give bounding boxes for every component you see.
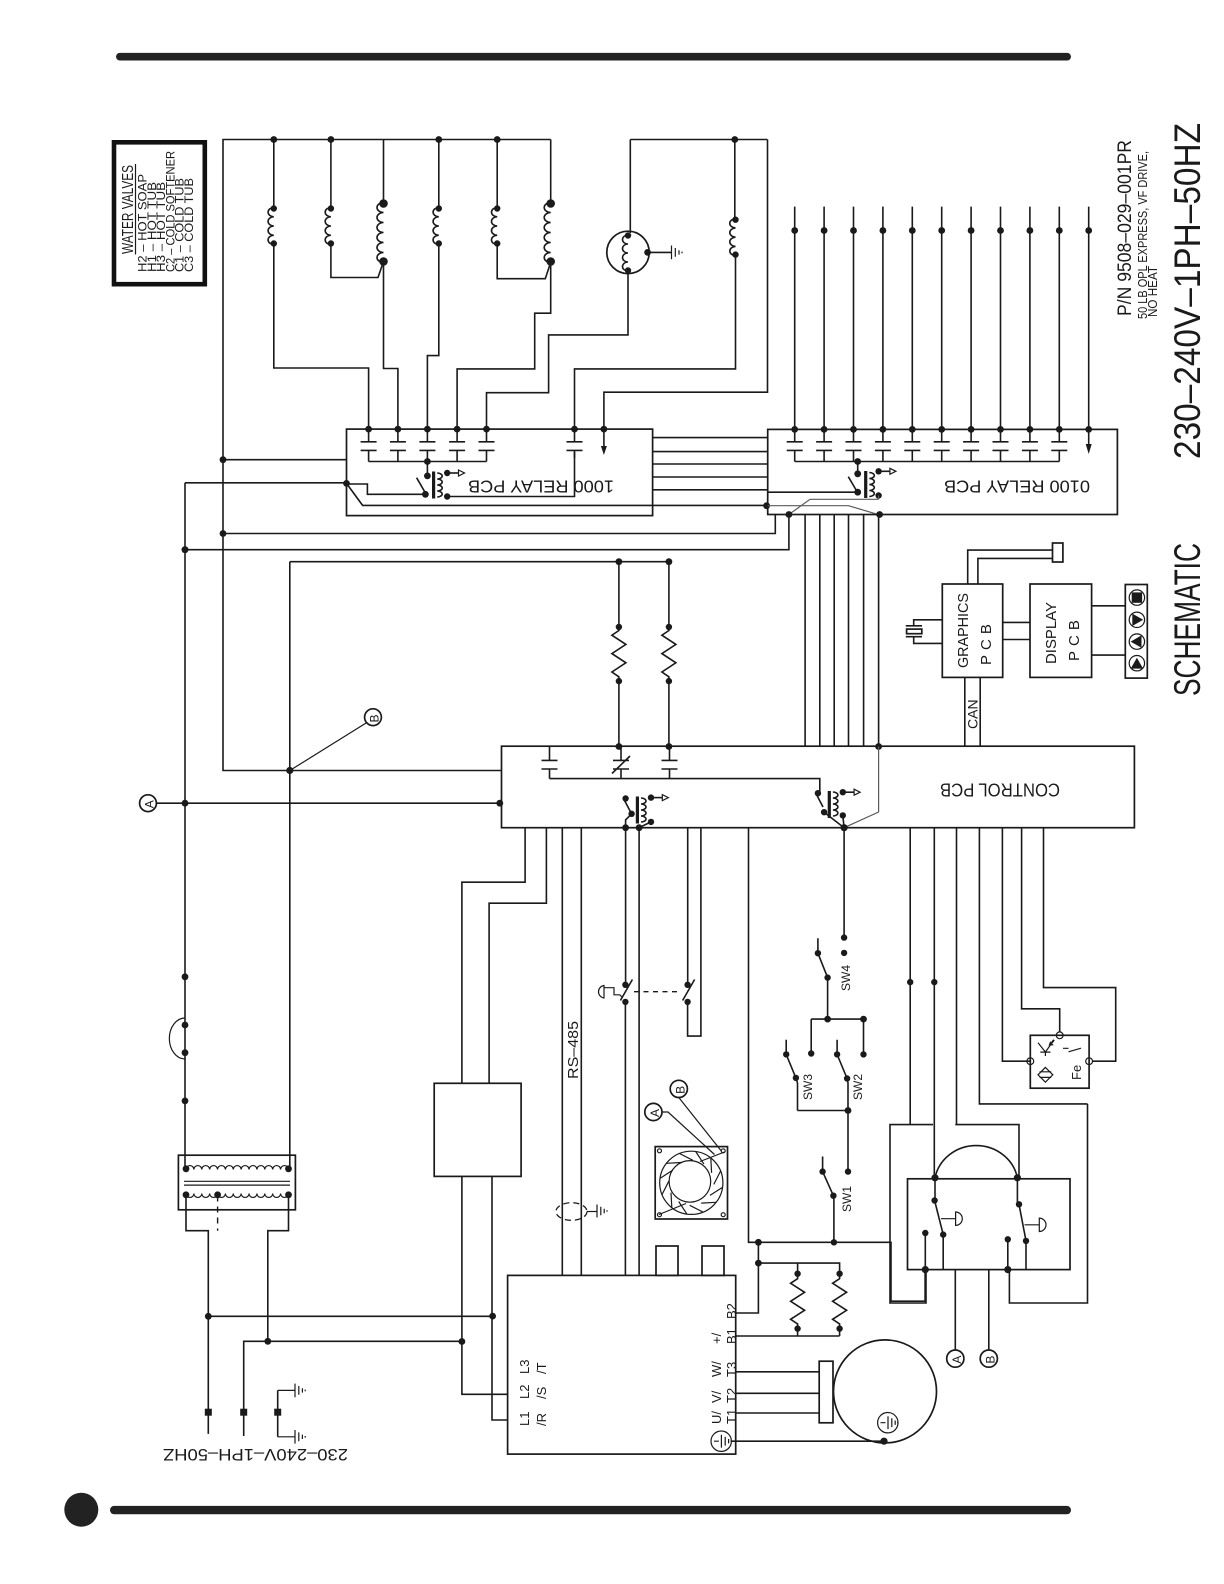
node dot supply L tap <box>205 1313 212 1320</box>
wire ferrite to ground <box>587 1211 597 1213</box>
crystal Y1 <box>906 620 943 644</box>
relay contact K1-1 <box>361 429 377 461</box>
svg-text:PCB: PCB <box>978 619 995 665</box>
button left <box>1129 634 1144 649</box>
node dot 1000 left edge <box>343 480 350 487</box>
relay RL2 blade <box>848 477 856 491</box>
wire node B leader <box>291 723 367 770</box>
switch SW3 <box>783 1019 814 1110</box>
svg-text:230–240V–1PH–50HZ: 230–240V–1PH–50HZ <box>1167 123 1208 459</box>
relay RL2 sense arrow <box>879 470 890 472</box>
brake resistor R4 <box>833 1271 847 1332</box>
wire RL1 coil out <box>447 452 574 497</box>
transformer core lines <box>184 1181 290 1185</box>
node dot 0100 bottom b <box>876 511 883 518</box>
node dot 0100 bottom a <box>786 511 793 518</box>
svg-text:+/: +/ <box>709 1332 724 1344</box>
door switch right plunger <box>1025 1218 1047 1231</box>
label +/ B1 <box>709 1328 739 1344</box>
ground PE upper <box>295 1384 305 1398</box>
bottom border bar <box>110 1506 1071 1514</box>
relay contact K1-6 <box>567 429 583 458</box>
svg-text:/R: /R <box>534 1413 549 1426</box>
svg-text:SCHEMATIC: SCHEMATIC <box>1167 543 1208 696</box>
thermo switch TS2 <box>683 980 695 1006</box>
wire H1-H3 tie <box>331 244 384 278</box>
wire RL2 blade to stub5 <box>768 491 858 493</box>
button up <box>1129 656 1144 671</box>
relay RL1 blade <box>417 478 426 493</box>
pin7 arrow 1000 <box>603 429 605 446</box>
node dot pump case <box>644 249 651 256</box>
node A label circle <box>140 795 157 812</box>
svg-text:SW2: SW2 <box>851 1074 865 1100</box>
label GRAPHICS PCB <box>955 593 995 668</box>
valve coil H3 <box>377 203 383 263</box>
wire left rail to transformer <box>184 483 186 1168</box>
VFD drive box <box>508 1275 736 1454</box>
relay contact K1-2 <box>390 429 406 461</box>
wire bus to valve H2 <box>273 140 275 208</box>
svg-text:V/: V/ <box>709 1390 724 1403</box>
wire 0100 pin to long run a <box>223 515 775 534</box>
resistor R1 <box>612 558 626 750</box>
wire bus to valve C1 <box>496 140 498 208</box>
wire 0100 internal run b <box>768 506 880 515</box>
svg-text:B: B <box>983 1356 997 1364</box>
node dot 0100 left edge <box>763 502 770 509</box>
label L1 /R <box>517 1412 549 1426</box>
label L3 /T <box>517 1360 549 1374</box>
node dot B2 bus <box>755 1260 762 1267</box>
valve coil C2 <box>433 208 439 245</box>
node B junction dot <box>286 767 293 774</box>
wire T3 to motor <box>736 1371 820 1373</box>
label W/ T3 <box>709 1361 739 1377</box>
wire fan lead B <box>679 1098 721 1151</box>
switch bus lower <box>798 1110 849 1112</box>
wire top supply bus R <box>630 139 767 141</box>
svg-text:W/: W/ <box>709 1361 724 1377</box>
motor M1 circle <box>834 1340 937 1443</box>
wire fan lead A <box>662 1112 715 1155</box>
wire feed 1000 left a <box>223 459 347 461</box>
wire RL1 blade return <box>347 484 426 494</box>
supply terminal PE <box>274 1409 281 1416</box>
transformer T1 box <box>178 1155 295 1210</box>
Fe switch blade <box>1063 1048 1081 1052</box>
wire node B to control <box>290 770 502 772</box>
fan FA1 frame <box>655 1147 727 1219</box>
display PCB box <box>1030 584 1092 677</box>
node dot bus-H1 <box>328 136 335 143</box>
svg-text:L1: L1 <box>517 1412 532 1426</box>
door switch left plunger <box>941 1212 962 1225</box>
door switch left pole <box>922 1178 947 1273</box>
wire supply N lower <box>244 1341 268 1436</box>
node dot rail A-803 <box>182 800 189 807</box>
svg-text:PCB: PCB <box>1066 615 1083 661</box>
Fe terminal left <box>1027 1058 1034 1065</box>
door switch assembly shield R <box>955 1104 1087 1303</box>
svg-text:A: A <box>648 1109 662 1117</box>
svg-text:B2: B2 <box>724 1303 739 1319</box>
wire bus to valve C2 <box>438 140 440 208</box>
interboard stub 5 <box>653 489 768 491</box>
switch SW4 <box>815 828 848 1019</box>
RS-485 pair wires <box>562 828 581 1276</box>
CAN bus pair <box>965 677 980 746</box>
Fe terminal right <box>1086 1058 1093 1065</box>
svg-text:WATER VALVES: WATER VALVES <box>120 165 137 254</box>
svg-text:T2: T2 <box>724 1388 739 1403</box>
relay contact K1-4 <box>449 429 465 461</box>
switch SW1 <box>819 1111 851 1246</box>
relay contact K1-3 <box>419 429 435 461</box>
antenna feed line <box>968 550 1053 584</box>
wire secondary right to supply <box>268 1195 289 1342</box>
wire control internal gray <box>844 747 879 828</box>
node dot rail A-977 <box>182 973 189 980</box>
display-panel link wires <box>1092 606 1126 655</box>
supply terminal L <box>205 1409 212 1416</box>
transformer center tap dashed <box>217 1196 219 1231</box>
wire node B rail to transformer <box>289 562 291 1168</box>
wire PE lower ground stub <box>278 1436 295 1438</box>
relay RL1 sense arrow <box>447 472 458 474</box>
control internal bus <box>550 779 820 794</box>
door switch dome <box>935 1146 1017 1178</box>
top border bar <box>116 53 1071 61</box>
valve coil C3 <box>544 140 550 263</box>
label V/ T2 <box>709 1388 739 1403</box>
svg-text:B: B <box>673 1086 687 1094</box>
wire control to door sw L <box>933 828 935 1178</box>
svg-text:DISPLAY: DISPLAY <box>1043 602 1060 664</box>
label L2 /S <box>517 1385 549 1399</box>
svg-text:0100 RELAY PCB: 0100 RELAY PCB <box>944 477 1090 497</box>
node dot L1 tap <box>489 1313 496 1320</box>
wire resistor feed bus <box>290 561 669 563</box>
transformer secondary winding <box>186 1194 288 1198</box>
wire control to door shield <box>909 828 911 1125</box>
wire control to lock Fe right <box>1044 828 1116 1061</box>
wire pump to relay pin5 <box>487 271 629 430</box>
wire PE upper ground stub <box>278 1389 295 1391</box>
wire control to lock Fe top <box>1022 828 1060 1032</box>
motor ground symbol <box>878 1413 898 1433</box>
node dot A at control <box>496 800 503 807</box>
wire feed 1000 left b <box>185 482 347 484</box>
wire control to thermo switch <box>625 828 627 985</box>
wire control pin1 to filter <box>462 828 525 1084</box>
fan blades <box>660 1152 723 1215</box>
Fe terminal top <box>1056 1032 1063 1039</box>
wire filter to VFD L2 <box>462 1176 508 1394</box>
button panel box <box>1125 585 1147 679</box>
wire door to node A <box>954 1270 956 1350</box>
supply terminal N <box>240 1409 247 1416</box>
relay K3 control <box>622 794 668 827</box>
wire PE with grounds <box>277 1390 279 1436</box>
door lock Fe box <box>1030 1035 1089 1088</box>
wire VFD ground to motor <box>731 1440 884 1442</box>
wire control to door right rail <box>979 828 1087 1104</box>
ground PE lower <box>295 1430 305 1444</box>
switch bus upper <box>811 1018 863 1020</box>
svg-text:U/: U/ <box>709 1411 724 1424</box>
interboard stub 2 <box>653 451 768 453</box>
fan mount diagonal <box>659 1152 725 1215</box>
wire control pin B2 run <box>749 828 926 1301</box>
svg-text:CAN: CAN <box>965 699 981 729</box>
water valves legend box <box>114 142 205 284</box>
antenna connector <box>1053 543 1063 562</box>
door switch right pole <box>1004 1178 1029 1273</box>
valve coil C1 <box>491 208 497 245</box>
wire bus to heat coil <box>734 140 736 219</box>
node B label circle door <box>980 1350 997 1367</box>
pump motor circle <box>607 231 649 273</box>
interboard stub 4 <box>653 476 768 478</box>
varistor crossed contact <box>612 746 630 778</box>
svg-text:GRAPHICS: GRAPHICS <box>955 593 972 668</box>
wire bus to pump <box>629 140 631 234</box>
svg-text:NO HEAT: NO HEAT <box>1145 266 1160 317</box>
svg-text:SW1: SW1 <box>840 1186 854 1212</box>
svg-text:T3: T3 <box>724 1362 739 1377</box>
node dot L2 tap <box>459 1338 466 1345</box>
svg-text:SW4: SW4 <box>839 965 853 991</box>
svg-text:C3 – COLD TUB: C3 – COLD TUB <box>182 178 196 272</box>
brake resistor bottom bus to B1 <box>736 1329 840 1336</box>
svg-text:P/N 9508–029–001PR: P/N 9508–029–001PR <box>1115 140 1136 316</box>
wire control pin2 to filter <box>489 828 546 1084</box>
node dot bus-coil7 <box>731 136 738 143</box>
VFD ground terminal <box>711 1431 731 1451</box>
ground ferrite <box>597 1205 607 1218</box>
svg-text:230–240V–1PH–50HZ: 230–240V–1PH–50HZ <box>163 1445 348 1463</box>
graphics-display link wires <box>1003 622 1030 639</box>
capacitor C2 control <box>662 746 678 778</box>
node dot bus-H2 <box>270 136 277 143</box>
wire C3 valve to relay pin4 <box>457 262 551 430</box>
svg-text:T1: T1 <box>724 1409 739 1424</box>
svg-text:L2: L2 <box>517 1385 532 1399</box>
svg-text:SW3: SW3 <box>801 1074 815 1100</box>
node dot control bottom K4 <box>841 824 848 831</box>
wire filter to VFD L1 <box>492 1176 508 1420</box>
wire C2 valve to relay pin3 <box>427 244 438 430</box>
wire supply L to VFD L1 <box>208 1315 492 1317</box>
wire top supply bus L <box>223 140 551 771</box>
wire control to VFD aux <box>638 828 640 1276</box>
relay K4 control <box>815 789 860 828</box>
node dot rail A-550 <box>182 546 189 553</box>
harness wires into 0100 <box>791 207 1092 430</box>
wire control to door top <box>956 828 958 1125</box>
node dot control top right <box>875 743 882 750</box>
node dot rail A-1101 <box>182 1098 189 1105</box>
ground pump <box>672 246 683 260</box>
wire 0100 pin to long run b <box>185 515 789 550</box>
svg-text:B: B <box>368 714 382 722</box>
svg-text:A: A <box>143 800 157 808</box>
contact common bus 1000 <box>369 461 487 463</box>
svg-text:RS–485: RS–485 <box>566 1021 582 1079</box>
node dot control bottom b <box>636 824 643 831</box>
pump winding <box>623 235 629 271</box>
brake resistor top bus <box>758 1263 839 1274</box>
interboard stub 3 <box>653 463 768 465</box>
button stop <box>1129 590 1144 605</box>
fan hub ring <box>669 1161 711 1203</box>
svg-text:A: A <box>950 1356 964 1364</box>
relay contacts K2 bank <box>787 426 1068 462</box>
valve coil H2 <box>268 208 274 245</box>
Fe solenoid arrow symbol <box>1038 1043 1052 1056</box>
node dot bus-C2 <box>435 136 442 143</box>
capacitor C1 control <box>542 746 558 778</box>
filter module box <box>434 1083 521 1176</box>
wire secondary left to supply <box>186 1195 208 1434</box>
brake resistor R3 <box>791 1271 805 1332</box>
relay coil RL1 <box>426 462 428 476</box>
thermo switch TS1 <box>620 980 632 1276</box>
interboard stub 1 <box>653 437 768 439</box>
relay PCB 0100 box <box>768 429 1118 514</box>
control PCB box <box>502 746 1135 828</box>
resistor R2 <box>662 558 676 750</box>
ribbon 0100 to control pcb <box>805 515 879 747</box>
punch hole dot <box>64 1493 98 1527</box>
button play right <box>1129 612 1144 627</box>
switch SW2 <box>834 1019 867 1110</box>
wire H2 valve to relay pin1 <box>274 244 369 430</box>
svg-text:CONTROL PCB: CONTROL PCB <box>940 780 1060 800</box>
wire left edge diag to long run <box>347 483 767 505</box>
door switch assembly shield L <box>890 1125 933 1303</box>
pin11 arrow 0100 <box>1088 429 1090 444</box>
wire C1-C3 tie <box>497 244 551 279</box>
legend title underline <box>135 164 137 255</box>
fan corner screws <box>658 1149 726 1217</box>
svg-text:/T: /T <box>534 1362 549 1374</box>
wire control to lock Fe left <box>1002 828 1030 1061</box>
label U/ T1 <box>709 1409 739 1424</box>
relay PCB 1000 box <box>347 429 653 515</box>
motor terminal box <box>819 1361 833 1423</box>
transformer primary winding <box>186 1166 288 1170</box>
wire bus to valve H3 <box>383 140 385 203</box>
fan outer ring <box>660 1151 723 1214</box>
svg-text:L3: L3 <box>517 1360 532 1374</box>
heater aux coil <box>730 219 736 256</box>
wire door to node B <box>988 1270 990 1350</box>
node B label circle fan <box>670 1080 687 1097</box>
node A label circle door <box>947 1350 964 1367</box>
node dot bus-C1 <box>494 136 501 143</box>
wire control TS2 loop <box>688 828 701 1036</box>
relay contact K1-5 <box>479 429 495 461</box>
wire heat coil to relay pin6 <box>575 255 736 430</box>
wire T2 to motor <box>736 1392 820 1394</box>
node B label circle <box>365 709 382 726</box>
wire H3 valve to relay pin2 <box>384 262 398 430</box>
thermostat bulb <box>598 986 622 999</box>
relay coil RL2 <box>857 462 859 474</box>
wire bus to valve H1 <box>330 140 332 208</box>
wire pump to ground <box>648 251 671 253</box>
wire B2 stub <box>736 1242 759 1313</box>
VFD top connector tab 1 <box>656 1246 678 1275</box>
wire supply N to VFD L2 <box>268 1340 462 1342</box>
wire node A to control <box>156 802 501 804</box>
node A label circle fan <box>645 1103 662 1120</box>
connector loop arc on rail <box>169 1018 185 1059</box>
wire bus end to relay pin7 <box>604 140 768 430</box>
contact common bus 0100 <box>795 461 1060 463</box>
mechanical link dashed <box>634 991 681 993</box>
wire 0100 internal run a <box>789 496 879 515</box>
wire T1 to motor <box>736 1412 820 1414</box>
label DISPLAY PCB <box>1043 602 1083 664</box>
door switch body box <box>908 1179 1071 1270</box>
svg-text:Fe: Fe <box>1069 1065 1084 1080</box>
svg-text:/S: /S <box>534 1386 549 1399</box>
graphics PCB box <box>942 584 1002 677</box>
svg-text:1000 RELAY PCB: 1000 RELAY PCB <box>468 477 614 497</box>
ferrite ring dashed <box>556 1203 587 1221</box>
node dot control bottom a <box>622 824 629 831</box>
VFD top connector tab 2 <box>702 1246 724 1275</box>
node dot supply N tap <box>264 1338 271 1345</box>
Fe diamond symbol <box>1038 1067 1053 1082</box>
valve coil H1 <box>325 208 331 245</box>
